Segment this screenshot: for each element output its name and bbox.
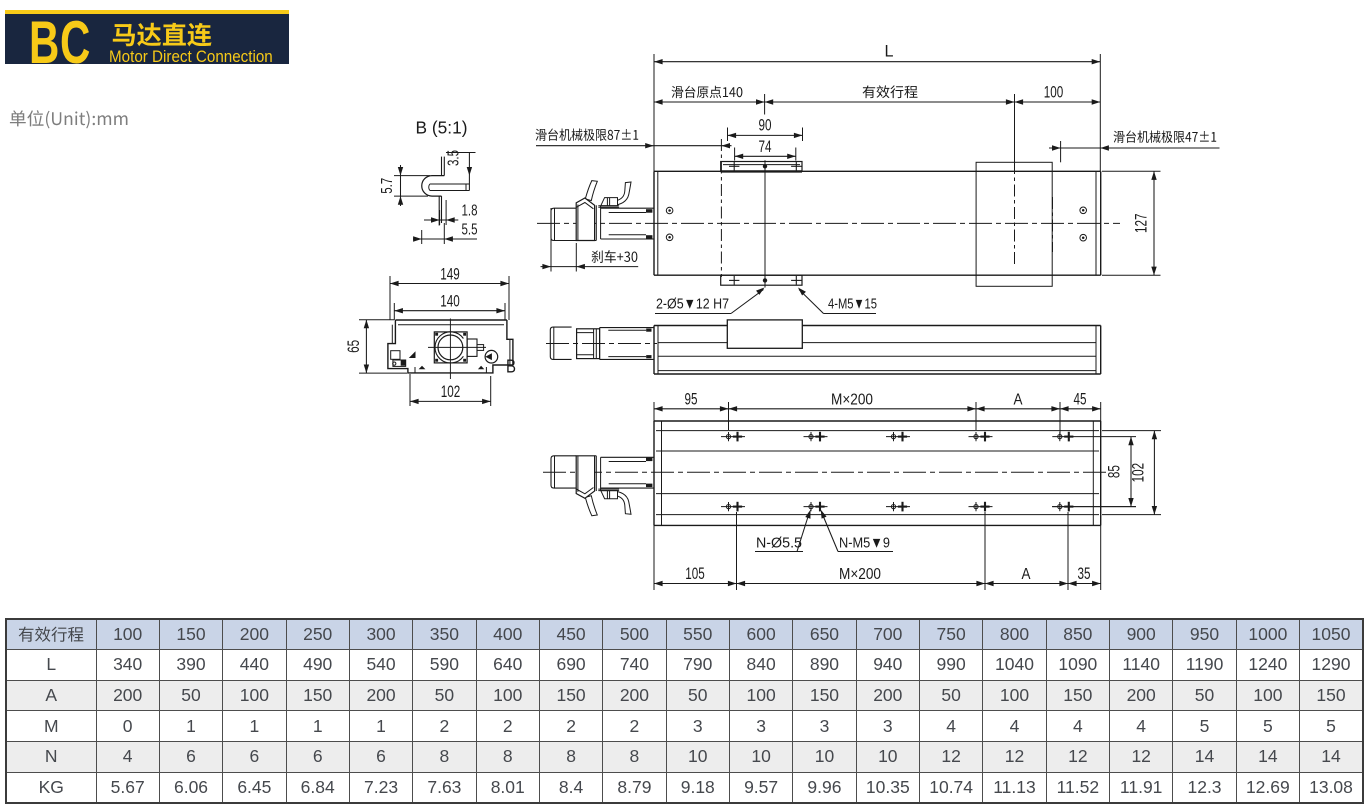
svg-text:45: 45 — [1074, 389, 1087, 408]
svg-text:127: 127 — [1132, 213, 1151, 233]
svg-text:1.8: 1.8 — [462, 203, 478, 220]
svg-text:N-M5▼9: N-M5▼9 — [839, 535, 890, 552]
svg-text:4-M5▼15: 4-M5▼15 — [828, 296, 877, 313]
svg-text:102: 102 — [441, 382, 461, 401]
svg-text:L: L — [885, 42, 894, 61]
svg-text:65: 65 — [344, 340, 363, 353]
svg-text:B (5:1): B (5:1) — [416, 118, 468, 138]
svg-text:3.5: 3.5 — [446, 150, 463, 166]
svg-text:M×200: M×200 — [831, 391, 873, 408]
svg-text:B: B — [506, 357, 516, 377]
svg-text:85: 85 — [1105, 465, 1124, 478]
svg-text:5.5: 5.5 — [462, 222, 478, 239]
svg-text:A: A — [1014, 391, 1024, 408]
svg-text:140: 140 — [440, 291, 460, 310]
svg-text:149: 149 — [440, 264, 460, 283]
svg-text:105: 105 — [685, 564, 705, 583]
svg-text:N-Ø5.5: N-Ø5.5 — [756, 535, 802, 552]
svg-text:74: 74 — [759, 137, 772, 156]
svg-text:2-Ø5▼12 H7: 2-Ø5▼12 H7 — [656, 296, 729, 313]
svg-text:100: 100 — [1044, 83, 1064, 102]
svg-text:90: 90 — [759, 115, 772, 134]
svg-text:102: 102 — [1129, 463, 1148, 483]
svg-text:95: 95 — [685, 389, 698, 408]
svg-text:M×200: M×200 — [839, 566, 881, 583]
svg-text:A: A — [1022, 566, 1032, 583]
svg-text:5.7: 5.7 — [379, 178, 396, 194]
svg-text:35: 35 — [1078, 564, 1091, 583]
